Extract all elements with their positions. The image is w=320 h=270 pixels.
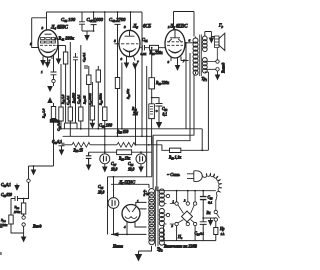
tube L4 bottom pins: [41, 57, 52, 75]
svg-text:Л5: Л5: [132, 25, 138, 30]
svg-text:0,01: 0,01: [141, 52, 147, 57]
rotated label c: [71, 93, 76, 104]
tube L5 6S5 envelope: [119, 30, 140, 56]
capacitor C48: [109, 12, 126, 44]
wire column x117: [115, 44, 119, 137]
svg-text:C440,1: C440,1: [1, 183, 11, 188]
ground pin L4 a: [40, 60, 46, 66]
ground pin L5: [124, 63, 130, 69]
capacitor C51: [140, 37, 150, 57]
wire column x135.5: [135, 66, 137, 145]
svg-text:4: 4: [124, 225, 126, 229]
terminal pickup: [52, 79, 55, 82]
resistor R45 column v5: [79, 45, 83, 129]
tube L6 bottom pins: [168, 57, 186, 66]
scan artifact left edge: [0, 224, 3, 256]
label Vklyuchenie: [164, 244, 197, 249]
node dots Y2: [104, 144, 150, 146]
label Tr1: [202, 76, 208, 82]
transformer Tr2 core: [155, 187, 158, 247]
ground speaker top: [209, 37, 215, 44]
transformer Tr1 primary winding: [193, 37, 198, 76]
mains cord: [203, 173, 222, 200]
svg-text:R331,1к: R331,1к: [168, 156, 181, 161]
svg-text:R4613: R4613: [82, 95, 87, 105]
tube L4 label: [30, 26, 69, 47]
svg-text:Пс: Пс: [177, 234, 183, 240]
tube L6 grid pin wire: [164, 47, 166, 49]
svg-text:3: 3: [124, 25, 126, 29]
wire top bus tube L6: [174, 12, 195, 37]
wire L6 pin to P2: [181, 60, 189, 62]
svg-text:C17: C17: [111, 162, 117, 167]
wire cathode L4: [57, 45, 66, 47]
svg-text:1: 1: [173, 201, 175, 204]
svg-text:Вход: Вход: [32, 224, 41, 229]
tube L5 anode bar: [125, 31, 135, 37]
ground pin L6: [175, 65, 181, 71]
tube L4 anode plates: [41, 38, 56, 44]
svg-text:6: 6: [189, 39, 191, 43]
svg-text:Л66П3С: Л66П3С: [169, 25, 188, 30]
resistor R34: [149, 45, 166, 55]
capacitor C46: [61, 12, 85, 31]
svg-text:1: 1: [168, 25, 170, 29]
ground arrow cathode: [56, 46, 62, 65]
svg-text:6С5: 6С5: [143, 25, 152, 30]
svg-text:Вк: Вк: [207, 211, 211, 215]
svg-text:2М: 2М: [133, 112, 139, 116]
transformer Tr1 secondary winding lower: [202, 58, 207, 74]
tube L5 bottom pins: [121, 56, 140, 64]
rectifier tube L7 envelope: [122, 205, 140, 223]
rotated label h upper: [82, 52, 87, 62]
svg-text:Тр2: Тр2: [157, 247, 163, 253]
switch contact digits: [172, 200, 187, 229]
electrolytic C15: [98, 176, 119, 234]
svg-text:20,0: 20,0: [98, 191, 104, 196]
wire L3: [157, 53, 190, 191]
loudspeaker Gr: [215, 23, 225, 60]
tube L5 grid dashes: [121, 43, 138, 45]
tube L6 screen wire: [185, 39, 194, 43]
resistor R26 box: [117, 150, 132, 161]
svg-text:Выход: Выход: [222, 63, 226, 73]
label Nakal: [112, 245, 123, 249]
wire filament arrow: [111, 232, 147, 236]
svg-text:Пр: Пр: [219, 227, 225, 231]
SECTION: top wiring: [32, 11, 194, 136]
svg-text:R3857к: R3857к: [126, 89, 131, 100]
svg-text:R49220к: R49220к: [99, 93, 104, 106]
node dots buses: [60, 128, 148, 137]
wire vA tube pin rail: [185, 42, 187, 129]
svg-text:R41330к: R41330к: [58, 36, 75, 42]
label Vyhod: [222, 63, 226, 73]
ground up arrow: [47, 97, 53, 107]
wire column x146.7: [146, 66, 148, 177]
svg-text:10,0: 10,0: [111, 168, 117, 173]
svg-text:C52: C52: [162, 107, 168, 112]
wire bus A: [59, 129, 203, 151]
svg-text:270к: 270к: [14, 210, 21, 214]
capacitor input chain top: [51, 55, 57, 79]
rotated label e: [82, 95, 87, 105]
mains plug: [187, 171, 202, 182]
tube L6 screen grid dashes: [167, 42, 183, 46]
label Vhod: [32, 224, 41, 229]
wire Y2: [62, 144, 162, 146]
resistor R39: [149, 78, 169, 89]
switch selector contacts right: [186, 191, 197, 226]
tube L6 anode bar: [170, 30, 180, 38]
ground small C44: [14, 184, 20, 192]
wire Y2 to R33: [162, 145, 170, 151]
resistor R20: [0, 215, 24, 233]
rotated label input C: [57, 120, 62, 131]
rectifier pin wires: [124, 199, 147, 234]
ground pin L4 b: [45, 62, 51, 68]
wire input horizontal: [29, 165, 54, 179]
svg-text:8: 8: [121, 57, 123, 61]
svg-text:~ Сеть: ~ Сеть: [167, 172, 180, 177]
wire top supply bus: [47, 12, 143, 136]
rotated label f: [88, 93, 93, 106]
electrolytic C17: [100, 151, 118, 172]
svg-text:R421,0: R421,0: [42, 108, 47, 119]
resistor R46 column v6: [87, 66, 91, 136]
SECTION: middle: [52, 37, 202, 177]
svg-text:C46100: C46100: [61, 17, 76, 23]
svg-text:6: 6: [55, 37, 57, 41]
rotated label input R: [42, 108, 47, 119]
label Ps: [177, 234, 183, 240]
capacitor C41 to ground: [86, 152, 92, 170]
wire column x121.9: [121, 63, 123, 129]
svg-text:C49100: C49100: [99, 123, 113, 129]
wire Tr2 bottom ground: [135, 246, 152, 262]
svg-text:7: 7: [183, 59, 185, 63]
wire bottom bus: [164, 226, 216, 241]
capacitor column v4: [73, 53, 78, 123]
capacitor small mid column: [84, 66, 88, 68]
capacitor C47: [82, 12, 104, 31]
resistor R25 zigzag: [116, 130, 135, 147]
label C44: [1, 183, 11, 188]
transformer Tr2 right winding: [159, 189, 164, 245]
terminal output upper: [216, 60, 219, 63]
svg-text:Накал: Накал: [112, 245, 123, 249]
label Tr2: [157, 247, 163, 253]
svg-text:C16: C16: [128, 162, 134, 167]
rotated label b: [66, 95, 71, 105]
node junction dots on bus: [93, 11, 132, 32]
ground input node: [31, 166, 37, 176]
svg-text:C15: C15: [98, 185, 104, 190]
ground below pickup: [47, 83, 53, 92]
svg-text:C430,1: C430,1: [82, 52, 87, 62]
tube L6 cathode: [168, 39, 181, 53]
rotated label d: [77, 94, 82, 104]
tube L5 cathode: [123, 49, 136, 58]
rectifier filament: [125, 217, 137, 219]
wire rail to R39: [151, 47, 153, 78]
capacitor block input chain: [50, 119, 57, 167]
svg-text:Тр1: Тр1: [202, 76, 208, 82]
svg-text:R2613к: R2613к: [118, 157, 130, 162]
SECTION: output: [153, 23, 225, 191]
wire secondary to speaker: [205, 32, 215, 37]
tube L4 6B8S envelope: [38, 30, 58, 57]
label L7: [118, 180, 150, 196]
electrolytic C16: [128, 151, 146, 172]
resistor R33: [168, 72, 208, 161]
svg-text:3: 3: [42, 26, 44, 30]
tube L6 6P3S envelope: [165, 30, 185, 58]
rotated label a: [61, 94, 66, 105]
wire C13 to switch Vk: [203, 217, 216, 219]
svg-text:10,0: 10,0: [128, 168, 134, 173]
ground output: [215, 71, 221, 80]
terminal input lower: [22, 223, 25, 233]
label Set: [167, 172, 180, 177]
rotated label R38: [126, 89, 131, 100]
ground mains: [208, 218, 214, 226]
SECTION: tubes: [30, 25, 194, 75]
svg-text:C51: C51: [142, 37, 148, 43]
resistor R40 on rail: [103, 12, 107, 152]
capacitor C40 to ground: [52, 140, 65, 156]
resistor R22: [14, 199, 26, 216]
svg-text:R2315: R2315: [73, 148, 84, 153]
wire shield down with capacitor C45: [11, 182, 29, 215]
resistor R42 with column v1: [59, 64, 63, 129]
rectifier anodes: [126, 207, 136, 212]
resistor R48 column v8: [96, 66, 100, 129]
transformer Tr1 secondary winding upper: [202, 34, 207, 52]
wire branch C52: [152, 98, 159, 104]
svg-text:5: 5: [30, 42, 32, 46]
tube L4 grid dashes: [40, 44, 56, 46]
pin digits Tr2: [144, 190, 146, 197]
svg-text:Л75Ц4С: Л75Ц4С: [118, 180, 135, 186]
transformer Tr2 left winding: [149, 189, 155, 245]
svg-text:7: 7: [137, 60, 139, 64]
svg-text:2: 2: [184, 200, 186, 203]
wire Y3: [89, 151, 152, 153]
wire anode lead tube L5: [130, 12, 132, 31]
ground under C47: [84, 31, 90, 41]
svg-text:1А: 1А: [221, 232, 226, 236]
svg-text:R34220к: R34220к: [149, 51, 163, 56]
capacitor C14: [195, 217, 207, 241]
fuse Pr: [214, 221, 225, 240]
svg-text:C45820: C45820: [1, 193, 12, 198]
svg-text:3: 3: [172, 225, 174, 228]
wire secondary to output terminals: [205, 62, 216, 70]
transformer Tr1 core: [200, 35, 202, 77]
terminal output lower: [216, 68, 219, 71]
ground pin L5 small: [132, 62, 138, 70]
wire bus B: [63, 136, 152, 177]
switch selector contacts left: [170, 191, 179, 226]
resistor R23 zigzag: [72, 142, 90, 153]
switch Vk: [207, 200, 220, 222]
label R41: [55, 36, 75, 42]
tube L6 label: [168, 25, 188, 30]
SECTION: power: [0, 55, 225, 262]
ground C49: [90, 123, 113, 129]
transformer Tr2 taps: [165, 194, 170, 224]
wire bridge: [64, 123, 77, 129]
tube L5 label: [114, 25, 152, 44]
resistor R43 upper box column v2: [63, 46, 67, 124]
resistor R47 column v7: [90, 82, 94, 123]
tube L4 cathode: [41, 34, 56, 52]
wire rectifier anode feed: [111, 184, 149, 188]
svg-text:5: 5: [114, 39, 116, 43]
svg-text:0,1: 0,1: [163, 113, 168, 118]
ground input bottom: [21, 233, 27, 243]
wire switch bottom to bus: [177, 226, 196, 241]
terminal input upper: [22, 216, 25, 219]
resistor input chain: [51, 107, 55, 119]
svg-text:0,1: 0,1: [208, 201, 213, 206]
selector diamond: [178, 205, 194, 223]
svg-text:R39220к: R39220к: [155, 81, 169, 86]
wire R39 to pot: [151, 89, 153, 104]
terminal shield: [27, 179, 30, 182]
rotated label g: [99, 93, 104, 106]
wire L2 screen supply: [153, 74, 194, 188]
svg-text:8: 8: [168, 60, 170, 64]
potentiometer R21: [131, 104, 158, 145]
wire mains bus: [157, 190, 216, 192]
svg-text:Л46Б8С: Л46Б8С: [50, 26, 69, 31]
SECTION: resistor column: [55, 12, 113, 152]
capacitor C13: [200, 191, 213, 218]
svg-text:Включение на 220В: Включение на 220В: [164, 244, 197, 249]
wire grid bus tube L4: [32, 18, 47, 48]
tube L5 grid pin wire: [115, 43, 120, 45]
wire power top: [108, 177, 152, 235]
capacitor C52 to ground: [156, 104, 168, 129]
label C45: [1, 193, 12, 198]
resistor R44 column v3: [68, 42, 72, 136]
svg-text:1: 1: [41, 70, 43, 74]
svg-text:Гр: Гр: [218, 23, 224, 29]
